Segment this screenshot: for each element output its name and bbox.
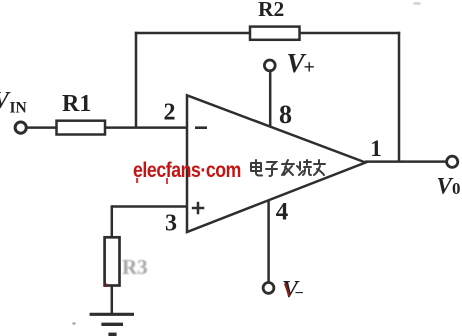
svg-text:3: 3 xyxy=(165,211,177,237)
wire feedback top left xyxy=(135,32,251,35)
svg-text:IN: IN xyxy=(10,100,27,117)
terminal V+ xyxy=(264,60,275,71)
wire pin 4 xyxy=(267,201,270,283)
wire feedback vertical right xyxy=(398,32,401,162)
wire R1 to op-amp pin 2 xyxy=(105,126,187,129)
label VIN xyxy=(0,88,27,117)
wire R3 to ground xyxy=(111,286,114,315)
stray mark top right xyxy=(413,2,421,5)
non-inverting input plus sign pin 3 xyxy=(192,202,205,215)
wire output xyxy=(365,160,446,163)
svg-text:8: 8 xyxy=(279,100,292,129)
watermark elecfans.com xyxy=(133,159,241,184)
svg-text:R3: R3 xyxy=(122,255,148,279)
terminal VO xyxy=(447,156,458,167)
terminal V- xyxy=(263,283,274,294)
watermark chinese text 电子发烧友 xyxy=(251,160,325,176)
resistor R1 xyxy=(57,121,106,135)
op-amp U1 xyxy=(187,95,366,232)
pin 2 label xyxy=(164,99,176,125)
label R2 xyxy=(258,0,284,21)
wire feedback vertical left xyxy=(135,32,138,128)
wire pin 8 xyxy=(269,71,272,127)
label R1 xyxy=(62,91,91,117)
char you xyxy=(314,160,325,175)
stray mark near ground xyxy=(73,323,76,325)
label V- xyxy=(282,277,304,303)
stray red mark at R3 bottom xyxy=(105,284,108,288)
svg-text:−: − xyxy=(295,285,304,302)
svg-text:1: 1 xyxy=(370,136,382,161)
label V+ xyxy=(287,48,315,79)
label VO xyxy=(437,174,461,199)
char shao xyxy=(297,160,311,175)
svg-text:4: 4 xyxy=(276,198,289,225)
wire pin 3 horizontal xyxy=(112,205,187,208)
pin 1 label xyxy=(370,136,382,161)
svg-text:R1: R1 xyxy=(62,91,91,117)
terminal VIN xyxy=(15,122,26,133)
pin 4 label xyxy=(276,198,289,225)
inverting input minus sign pin 2 xyxy=(195,126,207,129)
resistor R3 xyxy=(105,237,120,285)
char fa xyxy=(282,160,294,175)
svg-text:R2: R2 xyxy=(258,0,284,21)
svg-text:V: V xyxy=(437,174,454,199)
wire pin 3 vertical xyxy=(111,205,114,237)
svg-text:elecfans·com: elecfans·com xyxy=(133,159,241,182)
svg-text:+: + xyxy=(304,57,315,79)
char zi xyxy=(266,162,277,176)
label R3 faded xyxy=(122,255,148,279)
svg-text:0: 0 xyxy=(452,179,461,198)
wire feedback top right xyxy=(300,32,401,35)
char dian xyxy=(251,160,262,176)
ground xyxy=(90,314,134,334)
pin 3 label xyxy=(165,211,177,237)
wire VIN to R1 xyxy=(27,126,58,129)
pin 8 label xyxy=(279,100,292,129)
svg-text:2: 2 xyxy=(164,99,176,125)
resistor R2 xyxy=(250,27,300,40)
